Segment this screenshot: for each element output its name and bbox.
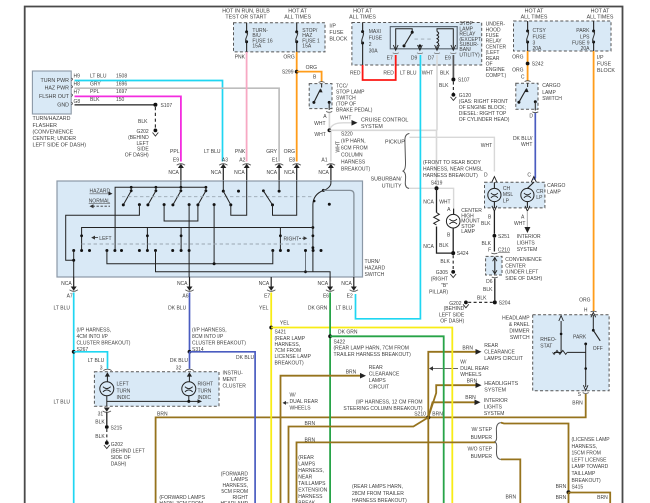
license lamp harness note xyxy=(572,437,611,491)
fuse MAXI FUSE 2 30A xyxy=(361,23,383,66)
svg-text:OFF: OFF xyxy=(593,346,603,352)
svg-text:SYSTEM: SYSTEM xyxy=(484,388,506,394)
svg-text:DK BLU: DK BLU xyxy=(236,355,254,361)
harness note forward lamps right xyxy=(220,471,248,503)
wire GRY 1696 (flasher H8 to switch E1) xyxy=(75,81,280,161)
svg-text:WHT: WHT xyxy=(340,116,351,122)
svg-text:SUBURBAN/: SUBURBAN/ xyxy=(371,177,402,183)
svg-text:28CM FROM TRAILER: 28CM FROM TRAILER xyxy=(352,491,404,497)
svg-text:LT BLU: LT BLU xyxy=(88,358,105,364)
svg-text:INDIC: INDIC xyxy=(198,395,212,401)
svg-text:COLUMN: COLUMN xyxy=(341,153,363,159)
svg-text:BRN: BRN xyxy=(346,370,357,376)
svg-text:DK BLU: DK BLU xyxy=(168,306,186,312)
svg-text:E7: E7 xyxy=(387,55,393,61)
svg-text:LT BLU: LT BLU xyxy=(336,306,353,312)
svg-text:OF ENGINE BLOCK;: OF ENGINE BLOCK; xyxy=(459,105,506,111)
svg-text:G120: G120 xyxy=(459,93,471,99)
svg-text:E1: E1 xyxy=(272,158,278,164)
svg-text:SIDE OF DASH): SIDE OF DASH) xyxy=(505,276,542,282)
wire BLK (pin31 to S215) xyxy=(106,413,108,426)
svg-text:HARNESS BREAKOUT): HARNESS BREAKOUT) xyxy=(352,498,407,503)
svg-text:3: 3 xyxy=(100,366,103,372)
svg-text:S242: S242 xyxy=(532,61,544,67)
svg-text:(BEHIND: (BEHIND xyxy=(444,306,465,312)
svg-text:DUAL REAR: DUAL REAR xyxy=(290,399,319,405)
wire BLK dashed S204 to G202 xyxy=(468,295,493,302)
svg-text:F: F xyxy=(488,247,491,253)
svg-text:WHT: WHT xyxy=(439,200,450,206)
svg-text:BRN: BRN xyxy=(305,437,316,443)
svg-text:LAMPS: LAMPS xyxy=(298,462,316,468)
svg-text:D: D xyxy=(484,173,488,179)
svg-text:S251: S251 xyxy=(498,234,510,240)
svg-text:A7: A7 xyxy=(67,294,73,300)
svg-text:DK GRN: DK GRN xyxy=(308,306,328,312)
splice S424 xyxy=(451,251,468,257)
svg-text:UTILITY): UTILITY) xyxy=(459,52,480,58)
wire BLK dashed (S215 to G202) xyxy=(95,429,107,441)
svg-text:LAMPS CIRCUIT: LAMPS CIRCUIT xyxy=(484,356,523,362)
harness note rear lamps taillamps xyxy=(298,455,327,503)
svg-text:RIGHT: RIGHT xyxy=(198,382,214,388)
svg-text:LT BLU: LT BLU xyxy=(54,399,71,405)
svg-text:TURN/: TURN/ xyxy=(365,259,381,265)
splice S267 xyxy=(72,328,131,354)
lamp CR LP (cargo) xyxy=(521,182,544,208)
svg-text:S107: S107 xyxy=(161,103,173,109)
wire BLK dashed to G120 xyxy=(439,82,453,93)
svg-text:BUMPER: BUMPER xyxy=(471,435,493,441)
svg-text:COMPT.): COMPT.) xyxy=(486,73,507,79)
switch name label xyxy=(365,259,386,278)
svg-text:BLK: BLK xyxy=(483,287,493,293)
turn/hazard switch top pin labels xyxy=(170,149,328,164)
svg-text:BLK: BLK xyxy=(440,71,450,77)
svg-text:ORG: ORG xyxy=(283,54,295,60)
svg-text:15CM FROM: 15CM FROM xyxy=(572,451,601,457)
svg-text:DK BLU: DK BLU xyxy=(170,358,188,364)
wire BRN w/ step bumper (brace to S415) xyxy=(501,423,569,491)
ground G120 xyxy=(451,93,510,123)
splice S299 xyxy=(282,70,299,76)
svg-text:HAZARD: HAZARD xyxy=(365,266,386,272)
harness note front-to-rear + S419 xyxy=(423,160,483,186)
svg-text:BLK: BLK xyxy=(90,97,100,103)
svg-text:ORG: ORG xyxy=(579,298,591,304)
svg-text:HARNESS: HARNESS xyxy=(298,494,323,500)
svg-text:NCA: NCA xyxy=(168,170,179,176)
svg-text:NCA: NCA xyxy=(177,281,188,287)
instrument cluster box xyxy=(94,370,246,406)
harness note rear lamps trailer xyxy=(352,484,407,503)
splice S314 xyxy=(188,328,247,354)
wire DK GRN branch (S422 right and down) xyxy=(330,336,444,503)
svg-text:RED: RED xyxy=(350,71,361,77)
splice S107 (second view) xyxy=(451,78,469,84)
svg-text:BUMPER: BUMPER xyxy=(471,454,493,460)
svg-text:TAILLAMPS: TAILLAMPS xyxy=(298,481,326,487)
svg-text:TAILLAMP: TAILLAMP xyxy=(572,471,596,477)
svg-text:REAR: REAR xyxy=(484,343,498,349)
svg-text:NCA: NCA xyxy=(211,170,222,176)
svg-text:(GAS: RIGHT FRONT: (GAS: RIGHT FRONT xyxy=(459,99,508,105)
svg-text:BLK: BLK xyxy=(95,434,105,440)
svg-text:NCA: NCA xyxy=(341,281,352,287)
svg-text:CR: CR xyxy=(536,189,544,195)
convenience center pass-through xyxy=(486,256,543,282)
svg-text:ALL TIMES: ALL TIMES xyxy=(521,15,548,21)
svg-text:LP: LP xyxy=(536,195,543,201)
svg-text:CRUISE CONTROL: CRUISE CONTROL xyxy=(361,117,408,123)
svg-text:HARNESS: HARNESS xyxy=(341,160,366,166)
harness note forward lamps left xyxy=(159,495,205,503)
svg-text:LT BLU: LT BLU xyxy=(54,306,71,312)
svg-text:OF CYLINDER HEAD): OF CYLINDER HEAD) xyxy=(459,117,510,123)
wire WHT pickup branch (brace to cargo lamp D) xyxy=(409,137,494,171)
bottom pin connectors (A7 A6 E7 E6 E2) xyxy=(54,277,359,312)
svg-text:MSL: MSL xyxy=(503,192,514,198)
svg-text:20A: 20A xyxy=(533,46,543,52)
svg-text:LT BLU: LT BLU xyxy=(90,74,107,80)
svg-text:NCA: NCA xyxy=(423,244,434,250)
svg-text:INSTRU-: INSTRU- xyxy=(223,370,244,376)
wire WHT S220 to S419 corner xyxy=(329,130,436,187)
svg-text:ORG: ORG xyxy=(284,149,296,155)
svg-text:H9: H9 xyxy=(74,73,81,79)
top pin connectors into switch (E9 A3 A2 E1 E8 A1) xyxy=(168,164,335,181)
svg-text:E2: E2 xyxy=(347,294,353,300)
wire BRN (corner to S210 diagonal) xyxy=(289,417,429,503)
svg-text:CH: CH xyxy=(503,186,511,192)
svg-text:HARNESS,: HARNESS, xyxy=(275,342,301,348)
svg-text:C210: C210 xyxy=(498,247,510,253)
svg-text:WHEELS: WHEELS xyxy=(290,405,312,411)
svg-text:NORMAL: NORMAL xyxy=(89,198,111,204)
svg-text:RHEO-: RHEO- xyxy=(540,337,556,343)
lamp CH MSL LP (pickup) xyxy=(488,182,514,208)
svg-text:PPL: PPL xyxy=(90,89,100,95)
svg-text:LAMP TOWARD: LAMP TOWARD xyxy=(572,464,609,470)
cluster pin 3 connector xyxy=(103,369,111,382)
svg-text:WHT: WHT xyxy=(514,221,525,227)
svg-text:LEFT: LEFT xyxy=(99,236,111,242)
svg-text:STEERING COLUMN BREAKOUT): STEERING COLUMN BREAKOUT) xyxy=(343,406,423,412)
svg-text:2: 2 xyxy=(369,42,372,48)
svg-text:STAT: STAT xyxy=(540,344,552,350)
wire LT BLU 1508 (flasher H9 to relay D9 vertical) xyxy=(75,74,223,162)
svg-text:LAMP: LAMP xyxy=(547,190,561,196)
svg-text:"B": "B" xyxy=(441,283,448,289)
svg-text:PARK: PARK xyxy=(576,28,590,34)
svg-text:CLUSTER BREAKOUT): CLUSTER BREAKOUT) xyxy=(192,341,246,347)
cargo lamp assembly box xyxy=(484,173,566,208)
cargo switch C connector xyxy=(521,74,531,81)
wire DK BLU (A6 to S314) xyxy=(189,293,191,352)
svg-text:BLK: BLK xyxy=(138,119,148,125)
svg-text:SWITCH: SWITCH xyxy=(510,335,530,341)
svg-text:20A: 20A xyxy=(581,46,591,52)
svg-text:SYSTEM: SYSTEM xyxy=(484,411,505,417)
splice S422 xyxy=(328,330,411,358)
svg-text:(LICENSE LAMP: (LICENSE LAMP xyxy=(572,437,611,443)
svg-text:HARNESS,: HARNESS, xyxy=(298,468,324,474)
wire LT BLU (relay D9 down to E2 loop) xyxy=(356,55,421,319)
lamp right turn indicator xyxy=(182,369,213,401)
wire WHT branch to cruise control xyxy=(330,116,408,130)
svg-text:W/: W/ xyxy=(290,392,297,398)
svg-text:WHT: WHT xyxy=(481,143,492,149)
svg-text:LEFT SIDE: LEFT SIDE xyxy=(439,312,465,318)
svg-text:(CONVENIENCE: (CONVENIENCE xyxy=(33,129,74,135)
wire DK BLU (S314 right to bottom) xyxy=(190,352,256,503)
svg-text:CENTER; UNDER: CENTER; UNDER xyxy=(33,136,77,142)
splice S419 xyxy=(435,186,439,190)
svg-text:BRN: BRN xyxy=(506,495,517,501)
svg-text:SWITCH: SWITCH xyxy=(365,272,385,278)
brace step bumper options xyxy=(468,423,501,460)
svg-text:CLUSTER BREAKOUT): CLUSTER BREAKOUT) xyxy=(77,341,131,347)
svg-text:BRN: BRN xyxy=(572,401,583,407)
wire BRN (corner to step-bumper brace) xyxy=(297,437,496,503)
contact row dots xyxy=(72,249,322,252)
svg-text:LPS: LPS xyxy=(580,34,590,40)
svg-text:DIMMER: DIMMER xyxy=(509,328,530,334)
svg-text:OF DASH): OF DASH) xyxy=(440,319,464,325)
svg-text:TURN: TURN xyxy=(198,388,212,394)
annotation w/ dual rear wheels (right) xyxy=(429,359,489,378)
splice S215 xyxy=(105,425,122,431)
svg-text:LP: LP xyxy=(503,198,510,204)
svg-text:(REAR LAMPS HARN,: (REAR LAMPS HARN, xyxy=(352,484,403,490)
svg-text:H: H xyxy=(584,308,588,314)
svg-text:ALL TIMES: ALL TIMES xyxy=(349,15,376,21)
wire BRN (S210 diagonal to headlights arrow) xyxy=(428,378,518,417)
underhood fuse relay center (dashed box) xyxy=(349,9,506,79)
svg-text:HEADLAMP: HEADLAMP xyxy=(502,315,530,321)
svg-text:32: 32 xyxy=(176,366,182,372)
svg-text:LIGHTS: LIGHTS xyxy=(484,405,503,411)
svg-text:LAMP: LAMP xyxy=(461,229,475,235)
svg-text:(RIGHT: (RIGHT xyxy=(431,277,448,283)
svg-text:WHT: WHT xyxy=(314,132,325,138)
svg-text:6CM FROM: 6CM FROM xyxy=(341,146,368,152)
splice S415 xyxy=(567,490,571,494)
svg-text:HARNESS, NEAR CHMSL: HARNESS, NEAR CHMSL xyxy=(423,167,483,173)
svg-text:D9: D9 xyxy=(411,55,418,61)
svg-text:SYSTEM: SYSTEM xyxy=(361,124,383,130)
svg-text:CTSY: CTSY xyxy=(533,28,547,34)
svg-text:FUSE: FUSE xyxy=(533,34,547,40)
svg-text:BRN: BRN xyxy=(462,346,473,352)
wire BLK dashed to G202 xyxy=(138,107,155,129)
svg-text:H7: H7 xyxy=(74,89,81,95)
svg-text:BREAKOUT): BREAKOUT) xyxy=(572,478,602,484)
svg-text:BREAKOUT): BREAKOUT) xyxy=(341,167,371,173)
svg-text:30A: 30A xyxy=(369,49,379,55)
wire BRN (S210 up to rear clearance lamps arrow) xyxy=(428,343,523,417)
svg-text:CLEARANCE: CLEARANCE xyxy=(484,350,515,356)
svg-text:D6: D6 xyxy=(486,279,493,285)
svg-text:DUAL REAR: DUAL REAR xyxy=(460,366,489,372)
wire BLK 150 (flasher G8 to S107) xyxy=(75,97,156,105)
ground G202 (third view) xyxy=(104,441,145,467)
left/right position dashed line xyxy=(82,243,310,245)
svg-text:FUSE: FUSE xyxy=(597,62,612,68)
wire BRN w/o step bumper (brace to bottom) xyxy=(501,459,520,503)
svg-text:1697: 1697 xyxy=(116,89,127,95)
lamp CHMSL (center high mount stop lamp) xyxy=(439,208,482,253)
svg-text:S204: S204 xyxy=(499,301,511,307)
wire NCA resistor branch (S419 to S424) xyxy=(423,188,453,253)
lower interconnect wires xyxy=(74,251,330,278)
svg-text:EXTENSION: EXTENSION xyxy=(298,488,327,494)
svg-text:HEADLIGHTS: HEADLIGHTS xyxy=(484,381,518,387)
svg-text:C: C xyxy=(521,74,525,80)
svg-text:ALL TIMES: ALL TIMES xyxy=(587,15,614,21)
svg-text:A1: A1 xyxy=(321,158,327,164)
svg-text:LEFT: LEFT xyxy=(117,382,129,388)
turn contact unit E1/E8 xyxy=(237,181,297,215)
svg-text:BRN: BRN xyxy=(597,495,608,501)
wire BLK dashed to G305 xyxy=(440,255,453,270)
wire DK BLU/WHT (cargo switch D to cargo lamp C) xyxy=(513,113,535,180)
svg-text:LAMP: LAMP xyxy=(542,90,556,96)
cargo lamp bottom pins B and A xyxy=(481,206,530,227)
svg-text:INDIC: INDIC xyxy=(117,395,131,401)
brace pickup/suburban xyxy=(371,134,410,190)
ground G305 (right B pillar) xyxy=(429,270,456,296)
svg-text:MENT: MENT xyxy=(223,377,237,383)
svg-text:NCA: NCA xyxy=(234,170,245,176)
svg-text:CLUSTER: CLUSTER xyxy=(223,383,247,389)
cluster pin 31 connector xyxy=(95,408,111,426)
wire ORG (fuse1 to S299 to switch E8) xyxy=(283,52,296,162)
svg-text:NCA: NCA xyxy=(259,281,270,287)
svg-text:(BEHIND LEFT: (BEHIND LEFT xyxy=(111,448,145,454)
svg-text:HARNESS BREAKOUT): HARNESS BREAKOUT) xyxy=(423,173,478,179)
svg-text:BLK: BLK xyxy=(439,243,449,249)
svg-text:(REAR LAMP HARN, 7CM FROM: (REAR LAMP HARN, 7CM FROM xyxy=(334,346,409,352)
wire BLK S251 to C210 xyxy=(482,238,511,254)
svg-text:DASH): DASH) xyxy=(111,461,127,467)
inner selector rail xyxy=(80,228,314,251)
svg-text:LICENSE LAMP: LICENSE LAMP xyxy=(275,354,312,360)
svg-text:E7: E7 xyxy=(264,294,270,300)
svg-text:(FORWARD LAMPS: (FORWARD LAMPS xyxy=(159,495,205,501)
svg-text:ORG: ORG xyxy=(512,68,524,74)
svg-text:7CM FROM: 7CM FROM xyxy=(275,348,302,354)
svg-text:I/P: I/P xyxy=(597,55,604,61)
svg-text:(I/P HARNESS,: (I/P HARNESS, xyxy=(192,328,227,334)
svg-text:A2: A2 xyxy=(239,158,245,164)
svg-text:S107: S107 xyxy=(458,78,470,84)
wire WHT (relay D7 down) xyxy=(422,55,437,130)
svg-text:S422: S422 xyxy=(334,339,346,345)
svg-text:A6: A6 xyxy=(182,294,188,300)
wire YEL (E7 to S421 to bottom) xyxy=(270,293,272,503)
svg-text:RED: RED xyxy=(383,71,394,77)
wire DK GRN (E6 to S422 to bottom) xyxy=(329,293,331,503)
svg-text:A3: A3 xyxy=(222,158,228,164)
svg-text:BLK: BLK xyxy=(439,83,449,89)
svg-text:CIRCUIT: CIRCUIT xyxy=(369,385,389,391)
splice S242 xyxy=(526,61,544,67)
svg-text:TURN: TURN xyxy=(117,388,131,394)
svg-text:PPL: PPL xyxy=(170,149,180,155)
wire BLK (cargo B to S251) xyxy=(493,211,495,234)
fuse TURN-B/U FUSE 16 15A xyxy=(245,23,273,52)
wire DK BLU branch (S314 to pin 32) xyxy=(170,352,190,372)
svg-text:S299: S299 xyxy=(282,70,294,76)
svg-text:BLOCK: BLOCK xyxy=(329,37,347,43)
svg-text:WHT: WHT xyxy=(314,121,325,127)
svg-text:INTERIOR: INTERIOR xyxy=(517,234,541,240)
wire WHT (S419 to CHMSL A) xyxy=(439,200,453,215)
svg-text:LT BLU: LT BLU xyxy=(400,71,417,77)
svg-text:REAR: REAR xyxy=(369,365,383,371)
lamp left turn indicator xyxy=(100,382,131,407)
svg-text:WHEELS: WHEELS xyxy=(460,372,482,378)
svg-text:ORG: ORG xyxy=(306,65,318,71)
ground G202 (behind left side of dash) xyxy=(125,129,158,159)
svg-text:BRN: BRN xyxy=(556,495,567,501)
svg-text:S421: S421 xyxy=(275,330,287,336)
svg-text:BLK: BLK xyxy=(482,241,492,247)
splice S421 xyxy=(269,321,311,367)
svg-text:ALL TIMES: ALL TIMES xyxy=(284,15,311,21)
svg-text:BLOCK: BLOCK xyxy=(597,68,615,74)
svg-text:BRN: BRN xyxy=(432,411,443,417)
wire LT BLU (A7 to S267 to bottom) xyxy=(54,293,74,503)
turn contact unit A3/A2 xyxy=(222,181,247,215)
annotation w/ dual rear wheels (left) xyxy=(283,392,319,411)
svg-text:E6: E6 xyxy=(323,294,329,300)
splice S210 xyxy=(343,399,443,419)
wire ORG (CTSY fuse to S242 to cargo switch C) xyxy=(512,51,527,81)
svg-text:DK GRN: DK GRN xyxy=(338,330,358,336)
wire LT BLU branch (S267 to cluster pin 3) xyxy=(74,352,108,372)
svg-text:G305: G305 xyxy=(436,270,448,276)
svg-text:BRN: BRN xyxy=(157,411,168,417)
svg-text:YEL: YEL xyxy=(280,321,290,327)
wire WHT (cargo A to interior lights) xyxy=(517,211,541,253)
cargo lamp switch SW2 xyxy=(516,83,563,110)
fuse STOP/HAZ FUSE 1 15A xyxy=(295,23,320,52)
wire BRN rear clearance (corner to arrow B) xyxy=(281,365,401,503)
wire PNK (fuse16 to switch A2) xyxy=(235,52,247,162)
fuse PARK LPS FUSE 9 20A xyxy=(572,21,595,52)
svg-text:BRN: BRN xyxy=(556,484,567,490)
svg-text:HARNESS,: HARNESS, xyxy=(572,444,598,450)
svg-text:15A: 15A xyxy=(302,44,312,50)
svg-text:SWITCH: SWITCH xyxy=(542,96,562,102)
svg-text:NCA: NCA xyxy=(61,281,72,287)
svg-text:TEST OR START: TEST OR START xyxy=(225,15,267,21)
svg-text:NCA: NCA xyxy=(318,170,329,176)
svg-text:PARK: PARK xyxy=(573,335,587,341)
svg-text:UTILITY: UTILITY xyxy=(382,183,402,189)
svg-text:ORG: ORG xyxy=(512,55,524,61)
svg-text:(UNDER LEFT: (UNDER LEFT xyxy=(505,270,538,276)
svg-text:1508: 1508 xyxy=(116,74,127,80)
normal contact drop wires xyxy=(66,205,214,277)
svg-text:LEFT LICENSE: LEFT LICENSE xyxy=(572,457,608,463)
svg-text:MAXI: MAXI xyxy=(369,29,381,35)
svg-text:W/O STEP: W/O STEP xyxy=(468,447,493,453)
svg-text:S210: S210 xyxy=(414,411,426,417)
relay pin arrows E7 D9 D7 E9 xyxy=(387,45,457,61)
